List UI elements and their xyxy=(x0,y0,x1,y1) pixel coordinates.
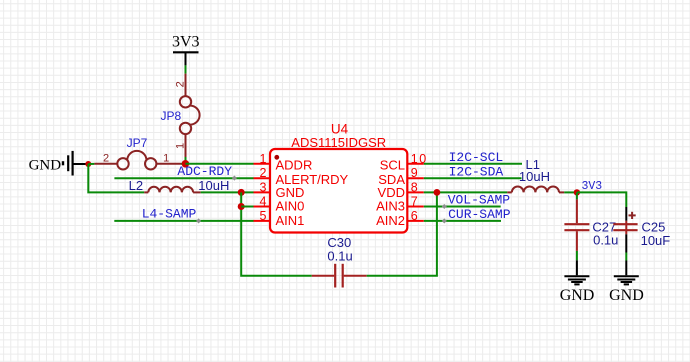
svg-text:AIN0: AIN0 xyxy=(276,199,305,214)
wire GND down to L2 xyxy=(88,164,144,192)
junction mark (gray) on ADC-RDY wire xyxy=(232,176,237,181)
svg-text:1: 1 xyxy=(260,152,267,166)
svg-text:0.1u: 0.1u xyxy=(593,232,618,247)
svg-text:8: 8 xyxy=(411,180,419,194)
svg-text:1: 1 xyxy=(163,153,169,165)
wire net I2C-SCL xyxy=(424,163,522,165)
svg-text:JP7: JP7 xyxy=(127,136,148,150)
polarity + mark (C25) xyxy=(629,212,636,219)
pin numbers left xyxy=(260,152,267,223)
pin names right xyxy=(376,158,405,228)
svg-text:0.1u: 0.1u xyxy=(327,248,352,263)
inductor L2 xyxy=(144,187,201,193)
wire pin4 stub xyxy=(241,206,253,208)
wire 3V3 to JP8 pin2 xyxy=(185,65,187,73)
ground symbol (C25) xyxy=(614,276,639,284)
svg-text:AIN2: AIN2 xyxy=(376,213,405,228)
junction mark (gray) on L4-SAMP wire xyxy=(196,218,201,223)
wire JP7 pin1 lead xyxy=(156,163,181,165)
ground symbol (C27) xyxy=(564,276,589,284)
svg-text:ADC-RDY: ADC-RDY xyxy=(177,164,232,179)
wire net I2C-SDA xyxy=(424,177,522,179)
wire JP7 pin2 lead xyxy=(94,163,117,165)
pin numbers right xyxy=(411,152,428,223)
wire C30 right up to VDD xyxy=(367,192,437,275)
svg-text:AIN3: AIN3 xyxy=(376,199,405,214)
node VDD junction xyxy=(434,189,441,196)
wire net L4-SAMP to pin5 xyxy=(114,220,253,222)
capacitor C27 plates xyxy=(564,224,589,230)
wire VDD to L1 xyxy=(424,191,508,193)
svg-text:GND: GND xyxy=(29,157,62,173)
svg-text:ADS1115IDGSR: ADS1115IDGSR xyxy=(291,135,386,150)
wire JP8 pin1 lead xyxy=(185,134,187,157)
svg-text:7: 7 xyxy=(411,195,419,209)
wire GND to JP7 pin2 (green stub) xyxy=(88,163,94,165)
svg-text:ADDR: ADDR xyxy=(276,158,313,173)
capacitor C27 leads xyxy=(576,199,578,251)
IC U4 ADS1115IDGSR body xyxy=(270,149,407,233)
svg-text:10uH: 10uH xyxy=(198,178,229,193)
svg-text:3: 3 xyxy=(260,180,267,194)
node pin4 junction xyxy=(238,203,245,210)
svg-text:GND: GND xyxy=(560,287,595,304)
wire JP8 pin2 lead xyxy=(185,74,187,97)
svg-text:CUR-SAMP: CUR-SAMP xyxy=(448,207,511,222)
svg-text:I2C-SCL: I2C-SCL xyxy=(449,150,504,165)
node ADC-RDY junction xyxy=(182,160,190,168)
capacitor C30 leads xyxy=(312,275,367,277)
svg-text:2: 2 xyxy=(174,81,186,87)
wire L2 to pin3 xyxy=(201,191,254,193)
svg-text:VOL-SAMP: VOL-SAMP xyxy=(448,193,511,208)
svg-text:10uH: 10uH xyxy=(519,169,550,184)
inductor L1 xyxy=(507,187,564,193)
node pin3 junction xyxy=(238,189,245,196)
wire net ADC-RDY row pin1 xyxy=(185,163,253,165)
svg-text:4: 4 xyxy=(260,195,267,209)
svg-text:2: 2 xyxy=(260,166,267,180)
node GND junction xyxy=(85,161,91,167)
wire C27 to ground xyxy=(576,251,578,260)
svg-text:GND: GND xyxy=(609,287,644,304)
svg-text:I2C-SDA: I2C-SDA xyxy=(449,164,504,179)
svg-text:3V3: 3V3 xyxy=(582,180,603,193)
wire net ADC-RDY stub pin2 xyxy=(114,177,253,179)
pins 10-6 U4 right xyxy=(407,164,424,221)
capacitor C25 top lead xyxy=(625,207,627,221)
junction mark (gray) on CUR-SAMP wire xyxy=(442,218,447,223)
pin 1 marker dot xyxy=(274,155,279,160)
node 3V3 junction xyxy=(574,189,580,195)
svg-text:AIN1: AIN1 xyxy=(276,213,305,228)
wire L1 to 3V3 node xyxy=(564,191,577,193)
pin names left xyxy=(276,158,349,228)
wire C25 to ground xyxy=(625,234,627,252)
jumper JP7 xyxy=(117,151,156,170)
junction mark (gray) on VOL-SAMP wire xyxy=(442,204,447,209)
svg-text:2: 2 xyxy=(103,153,109,165)
wire net CUR-SAMP xyxy=(424,220,501,222)
capacitor C30 plates xyxy=(335,264,343,288)
svg-text:5: 5 xyxy=(260,209,267,223)
svg-text:9: 9 xyxy=(411,166,419,180)
capacitor C25 plates xyxy=(613,224,637,230)
jumper JP8 xyxy=(180,96,200,134)
power symbol GND (left) xyxy=(63,151,86,176)
svg-text:L4-SAMP: L4-SAMP xyxy=(142,206,197,221)
svg-text:L2: L2 xyxy=(129,178,143,193)
svg-text:SCL: SCL xyxy=(380,158,405,173)
svg-text:6: 6 xyxy=(411,209,419,223)
wire pin3 junction down to C30 xyxy=(241,192,312,275)
svg-text:3V3: 3V3 xyxy=(172,34,200,51)
wire net VOL-SAMP xyxy=(424,206,501,208)
svg-text:JP8: JP8 xyxy=(161,109,182,123)
pins 1-5 U4 left xyxy=(254,164,271,221)
wire 3V3 node to C25 xyxy=(577,192,626,207)
svg-text:10uF: 10uF xyxy=(641,233,671,248)
wire 3V3 node down to C27 xyxy=(576,192,578,199)
